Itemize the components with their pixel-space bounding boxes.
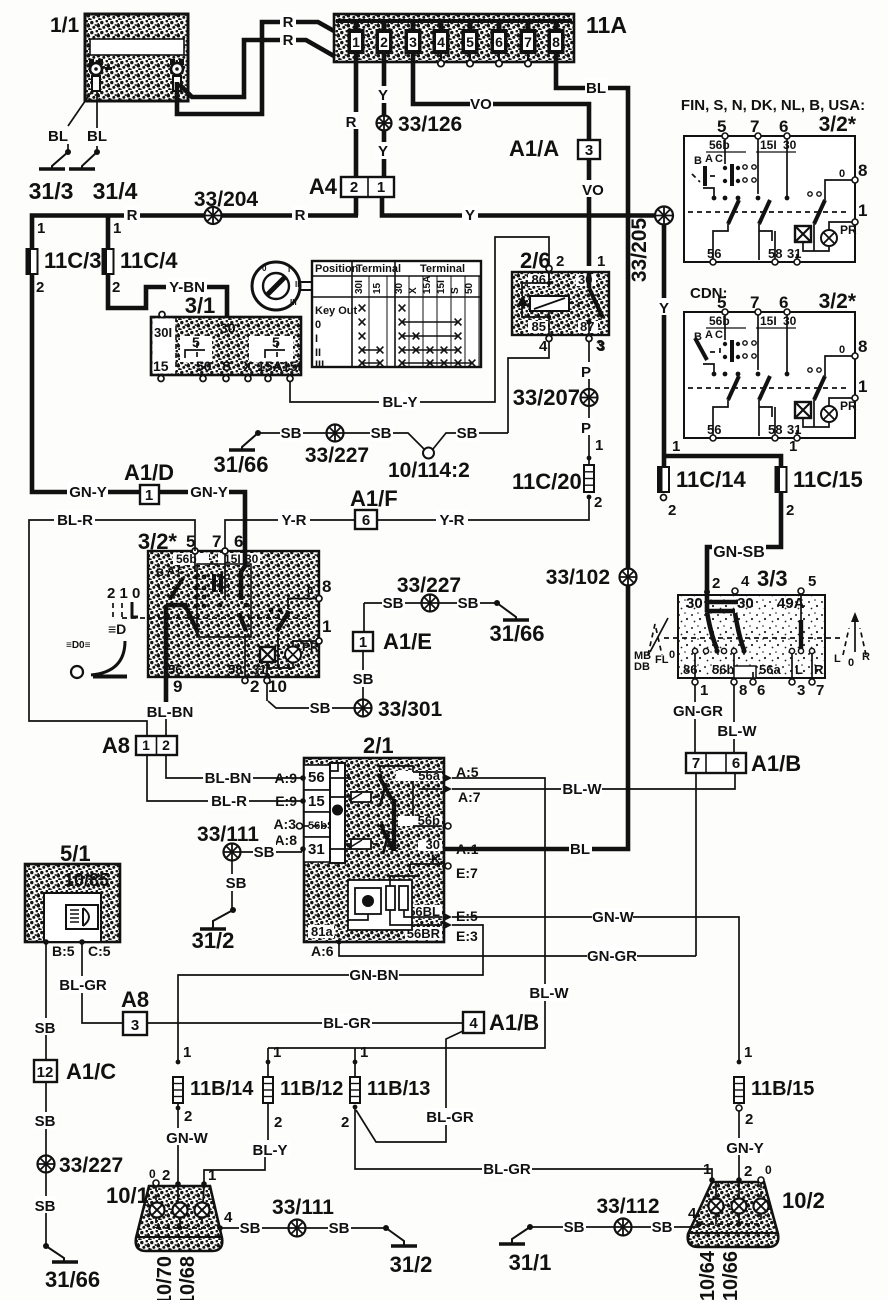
svg-text:FL: FL <box>655 654 669 666</box>
svg-text:15I: 15I <box>436 280 447 294</box>
svg-text:12: 12 <box>37 1064 54 1081</box>
svg-text:A:7: A:7 <box>458 789 481 805</box>
svg-text:BL: BL <box>87 128 107 145</box>
svg-text:11B/13: 11B/13 <box>367 1078 430 1100</box>
svg-text:A1/B: A1/B <box>751 751 801 776</box>
svg-text:1: 1 <box>322 617 331 636</box>
svg-text:2: 2 <box>341 1114 349 1131</box>
svg-text:SB: SB <box>281 425 302 442</box>
wire BL-GR A1/B pin4 to fuse 11B/13 pin2 <box>356 1031 463 1142</box>
svg-text:30I: 30I <box>154 325 172 340</box>
svg-text:GN-SB: GN-SB <box>713 544 765 561</box>
svg-text:BL-W: BL-W <box>529 985 569 1002</box>
connector A1/C <box>34 1059 116 1084</box>
svg-text:56: 56 <box>168 662 182 677</box>
svg-text:2: 2 <box>350 179 358 196</box>
svg-text:1: 1 <box>37 220 45 237</box>
wire BL fuse8 down right side to relay 2/1 pin A:1 <box>444 54 628 849</box>
svg-text:33/112: 33/112 <box>596 1195 659 1218</box>
wire GN-Y fuse 11B/15 to lamp 10/2 pin2 <box>738 1111 740 1181</box>
svg-text:A: A <box>705 329 713 341</box>
svg-text:15I: 15I <box>760 138 777 152</box>
svg-text:33/102: 33/102 <box>546 566 610 589</box>
svg-text:A1/F: A1/F <box>350 486 398 511</box>
svg-text:L: L <box>795 662 803 677</box>
fuse 11B/14 <box>173 1077 183 1103</box>
wire GN-GR A:6 to A1/B pin7 <box>339 942 696 956</box>
svg-text:B:5: B:5 <box>52 943 75 959</box>
svg-text:10/85: 10/85 <box>64 870 109 890</box>
wire BL-Y ignition 15I to relay 2/6 coil <box>290 237 549 402</box>
svg-text:A8: A8 <box>102 733 130 758</box>
ground 31/1 <box>499 1224 533 1244</box>
fuse 11C/4 <box>106 249 111 274</box>
svg-text:33/205: 33/205 <box>628 218 651 283</box>
svg-text:3/1: 3/1 <box>185 293 216 318</box>
svg-text:L: L <box>834 653 841 665</box>
svg-text:SB: SB <box>226 875 247 892</box>
svg-text:B: B <box>694 155 702 167</box>
fuse 11B/15 <box>734 1077 744 1103</box>
ground 31/3 <box>39 149 71 169</box>
svg-text:6: 6 <box>779 293 788 312</box>
svg-text:10/2: 10/2 <box>782 1188 825 1213</box>
svg-text:PR: PR <box>840 223 857 237</box>
svg-text:11C/4: 11C/4 <box>120 248 178 273</box>
svg-text:6: 6 <box>732 755 740 772</box>
ground 31/2 <box>200 907 236 929</box>
svg-text:15A: 15A <box>422 276 433 294</box>
svg-text:PR: PR <box>302 640 319 654</box>
svg-text:1/1: 1/1 <box>50 14 80 37</box>
svg-text:1: 1 <box>273 1044 281 1061</box>
svg-text:1: 1 <box>672 438 680 455</box>
wire BL-GR 5/1 C:5 to connector A8 pin3 <box>82 942 123 1023</box>
svg-text:2: 2 <box>556 253 564 270</box>
svg-text:III: III <box>315 359 324 371</box>
svg-text:Terminal: Terminal <box>420 263 465 275</box>
svg-text:15I: 15I <box>282 358 301 374</box>
svg-text:33/227: 33/227 <box>305 444 369 467</box>
svg-text:33/227: 33/227 <box>59 1154 123 1177</box>
wire GN-W E:5 to fuse 11B/15 <box>452 917 739 1062</box>
svg-text:10/114:2: 10/114:2 <box>388 459 470 482</box>
svg-text:BL-W: BL-W <box>562 781 602 798</box>
svg-text:31/66: 31/66 <box>45 1267 100 1292</box>
svg-text:BL-BN: BL-BN <box>147 704 194 721</box>
svg-text:Y-R: Y-R <box>281 512 306 529</box>
svg-text:56b: 56b <box>712 662 734 677</box>
svg-text:8: 8 <box>322 577 331 596</box>
svg-text:II: II <box>315 347 321 359</box>
svg-text:0: 0 <box>839 344 845 356</box>
svg-text:4: 4 <box>688 1205 697 1222</box>
svg-text:B: B <box>156 567 164 579</box>
svg-text:15I: 15I <box>760 314 777 328</box>
svg-text:3: 3 <box>409 34 417 50</box>
svg-text:GN-GR: GN-GR <box>673 703 723 720</box>
svg-text:11B/12: 11B/12 <box>280 1078 343 1100</box>
svg-text:7: 7 <box>692 755 700 772</box>
svg-text:11B/15: 11B/15 <box>751 1078 814 1100</box>
svg-text:BL-GR: BL-GR <box>483 1161 531 1178</box>
svg-text:56b: 56b <box>709 138 730 152</box>
fuse box 11A <box>334 12 627 67</box>
svg-text:A:8: A:8 <box>274 832 297 848</box>
svg-text:11A: 11A <box>586 12 627 38</box>
svg-text:2: 2 <box>162 737 170 753</box>
fuse 11B/13 <box>350 1077 360 1103</box>
ground 31/2 bottom <box>383 1225 417 1246</box>
wire battery positive inner R to fuse box <box>179 40 334 97</box>
rotary position indicator 2 1 0 <box>66 585 140 678</box>
wire GN-Y 11C/3 down to A1/D <box>32 274 245 551</box>
svg-text:PR: PR <box>840 399 857 413</box>
svg-text:GN-Y: GN-Y <box>69 484 107 501</box>
svg-text:5: 5 <box>717 293 726 312</box>
svg-text:X: X <box>243 358 253 374</box>
svg-text:31/4: 31/4 <box>93 178 138 204</box>
svg-text:11B/14: 11B/14 <box>190 1078 254 1100</box>
wire battery positive outer R to fuse box <box>177 22 334 114</box>
svg-text:8: 8 <box>552 34 560 50</box>
svg-text:A1/E: A1/E <box>383 629 432 654</box>
svg-text:15: 15 <box>308 793 325 810</box>
svg-text:33/204: 33/204 <box>194 188 259 211</box>
svg-text:BL-Y: BL-Y <box>253 1142 288 1159</box>
svg-text:2: 2 <box>380 34 388 50</box>
connector 33/301 <box>355 700 372 717</box>
svg-text:86: 86 <box>532 272 546 287</box>
svg-text:1: 1 <box>142 737 150 753</box>
svg-text:BL: BL <box>48 128 68 145</box>
wire Y-BN 11C/4 to ignition switch 3/1 <box>108 274 227 317</box>
relay 2/1 left pins A:9 E:9 A:3 A:8 <box>300 775 306 781</box>
svg-text:1: 1 <box>858 377 867 396</box>
wire SB A1/C to ground 31/66 bottom left <box>45 1082 47 1246</box>
connector 33/204 <box>205 207 222 224</box>
svg-text:A1/D: A1/D <box>124 460 174 485</box>
svg-text:1: 1 <box>145 487 153 504</box>
svg-text:1: 1 <box>744 1044 752 1061</box>
svg-text:11C/15: 11C/15 <box>793 467 863 492</box>
svg-text:A: A <box>705 153 713 165</box>
wire R main horizontal to 11C/3 11C/4 <box>32 197 358 249</box>
svg-text:X: X <box>408 287 419 294</box>
wire SB A1/E to connector 33/301 and switch 3/2 pin10 <box>267 651 363 708</box>
headlamp assembly 10/2 <box>688 1161 825 1247</box>
svg-text:GN-BN: GN-BN <box>349 967 398 984</box>
svg-text:II: II <box>295 280 299 289</box>
svg-text:4: 4 <box>539 338 548 355</box>
svg-text:Y: Y <box>659 300 669 317</box>
svg-text:3/2*: 3/2* <box>819 113 857 136</box>
wire Y A4 to connector 33/205 <box>382 197 664 216</box>
svg-text:1: 1 <box>700 682 708 699</box>
svg-text:50: 50 <box>464 282 475 294</box>
svg-text:31: 31 <box>252 662 266 677</box>
svg-text:BL-R: BL-R <box>211 793 247 810</box>
turn signal lever arrows right L 0 R <box>834 612 870 669</box>
svg-text:2: 2 <box>744 1163 752 1180</box>
svg-text:7: 7 <box>816 682 824 699</box>
svg-text:58: 58 <box>228 662 242 677</box>
connector 33/227 mid <box>422 595 439 612</box>
wire Y 33/205 down to fuses 11C/14 11C/15 <box>664 224 781 467</box>
svg-text:SB: SB <box>564 1219 585 1236</box>
connector A8 (1 2) <box>102 733 177 758</box>
svg-text:5: 5 <box>272 334 280 350</box>
ignition key symbol <box>252 262 312 310</box>
svg-text:3/2*: 3/2* <box>819 290 857 313</box>
wire BL-W 3/3 pin8 to A1/B pin6 <box>733 685 735 753</box>
ignition switch 3/1 <box>151 293 301 375</box>
svg-text:31: 31 <box>787 246 801 261</box>
svg-text:1: 1 <box>595 437 603 454</box>
svg-text:31/66: 31/66 <box>489 621 544 646</box>
connector A1/A <box>509 136 600 161</box>
svg-text:SB: SB <box>353 671 374 688</box>
svg-text:GN-GR: GN-GR <box>587 948 637 965</box>
svg-text:P: P <box>581 364 591 381</box>
wire BL-BN A8 pin2 to relay 2/1 A:9 <box>166 755 302 778</box>
ground 31/66 mid <box>494 600 529 620</box>
svg-text:15: 15 <box>153 358 169 374</box>
relay 2/6 <box>512 248 609 355</box>
wire BL-GR A8 pin3 to connector A1/B pin4 <box>147 1022 463 1024</box>
svg-text:30: 30 <box>737 595 754 612</box>
svg-text:BL-W: BL-W <box>717 723 757 740</box>
wire SB 33/227 mid to A1/E and ground 31/66 <box>364 603 497 650</box>
svg-text:56: 56 <box>308 769 325 786</box>
fuse 11C/15 <box>776 467 787 492</box>
svg-text:7: 7 <box>750 293 759 312</box>
svg-text:5: 5 <box>808 573 816 590</box>
svg-text:33/301: 33/301 <box>378 698 443 721</box>
svg-text:2: 2 <box>712 575 720 592</box>
relay 2/1 right pins A:5 A:7 56b A:1 K E:7 E:5 E:3 <box>444 774 452 782</box>
svg-text:2: 2 <box>786 502 794 519</box>
svg-text:A:6: A:6 <box>311 943 334 959</box>
svg-text:33/207: 33/207 <box>513 385 580 410</box>
svg-text:BL-R: BL-R <box>57 512 93 529</box>
svg-text:5/1: 5/1 <box>60 841 91 866</box>
svg-text:SB: SB <box>457 425 478 442</box>
svg-text:15A: 15A <box>257 358 283 374</box>
svg-text:11C/20: 11C/20 <box>512 469 582 494</box>
switch 3/3 turn signal <box>664 566 843 681</box>
svg-text:A1/A: A1/A <box>509 136 559 161</box>
svg-text:BL-GR: BL-GR <box>323 1015 371 1032</box>
svg-text:A: A <box>167 565 175 577</box>
svg-text:Y-R: Y-R <box>439 512 464 529</box>
svg-text:VO: VO <box>582 182 604 199</box>
svg-text:9: 9 <box>173 677 182 696</box>
instrument panel 5/1 with indicator 10/85 <box>25 841 120 959</box>
svg-text:A:9: A:9 <box>274 770 297 786</box>
svg-text:SB: SB <box>458 595 479 612</box>
switch 3/3 bottom pins 1 8 6 3 7 <box>692 679 698 685</box>
svg-text:6: 6 <box>234 532 243 551</box>
relay 2/6 switch blade 30-87 <box>586 272 603 335</box>
svg-text:56a: 56a <box>759 662 781 677</box>
svg-text:III: III <box>290 298 297 307</box>
svg-text:I: I <box>315 333 318 345</box>
svg-text:7: 7 <box>212 532 221 551</box>
svg-text:I: I <box>288 265 290 274</box>
svg-text:Y: Y <box>378 143 388 160</box>
svg-text:A4: A4 <box>309 174 338 199</box>
turn signal lever arrows left MB DB FL 0 <box>634 618 675 673</box>
svg-text:30: 30 <box>426 837 440 852</box>
svg-text:10/68: 10/68 <box>177 1256 199 1300</box>
wire R fuse1 to connector A4 <box>354 54 359 177</box>
svg-text:BL-BN: BL-BN <box>205 770 252 787</box>
connector A1/F <box>350 486 398 529</box>
ground 31/4 <box>69 149 100 169</box>
svg-text:SB: SB <box>35 1113 56 1130</box>
connector 33/227 <box>327 425 344 442</box>
svg-text:4: 4 <box>469 1015 478 1032</box>
svg-text:2: 2 <box>184 1108 192 1125</box>
headlamp assembly 10/1 <box>106 1167 233 1251</box>
svg-text:A1/C: A1/C <box>66 1059 116 1084</box>
svg-text:5: 5 <box>717 117 726 136</box>
wire BL-GR fuse 11B/13 to lamp 10/2 pin1 <box>355 1107 712 1182</box>
svg-text:0: 0 <box>765 1163 772 1177</box>
fuse 11C/20 <box>584 465 594 492</box>
svg-text:GN-Y: GN-Y <box>726 1140 764 1157</box>
svg-text:8: 8 <box>739 682 747 699</box>
svg-text:11C/14: 11C/14 <box>676 467 746 492</box>
headlamp switch 3/2* FIN,S,N,DK,NL,B,USA variant <box>681 97 868 265</box>
svg-text:15: 15 <box>372 282 383 294</box>
svg-text:3/3: 3/3 <box>757 566 788 591</box>
svg-text:C:5: C:5 <box>88 943 111 959</box>
svg-text:6: 6 <box>757 682 765 699</box>
wire P relay 2/6 pin3 to fuse 11C/20 <box>588 342 590 465</box>
svg-text:5: 5 <box>466 34 474 50</box>
svg-text:R: R <box>346 114 357 131</box>
connector A8 (3) <box>121 987 149 1035</box>
svg-text:1: 1 <box>377 179 385 196</box>
fuse 11C/14 <box>658 467 669 492</box>
wire VO fuse3 to relay 2/6 pin1 <box>413 54 589 266</box>
wire GN-GR 3/3 pin1 to A1/B pin7 and relay 2/1 A:6 <box>695 685 696 956</box>
switch 3/2* bottom pins 9 2 10 <box>242 678 248 684</box>
wire GN-W fuse 11B/14 to lamp 10/1 pin2 <box>177 1103 179 1186</box>
connector A4 <box>309 174 394 199</box>
svg-text:56b: 56b <box>709 314 730 328</box>
headlamp switch 3/2* CDN variant <box>684 285 867 441</box>
svg-text:1: 1 <box>113 220 121 237</box>
svg-text:31/66: 31/66 <box>213 452 268 477</box>
svg-text:5: 5 <box>192 334 200 350</box>
svg-text:33/111: 33/111 <box>197 823 259 846</box>
svg-text:A8: A8 <box>121 987 149 1012</box>
connector 33/126 <box>377 116 392 131</box>
relay 2/1 <box>304 733 444 942</box>
svg-text:1: 1 <box>703 1161 711 1178</box>
svg-text:E:9: E:9 <box>275 793 297 809</box>
svg-text:10/70: 10/70 <box>154 1256 176 1300</box>
svg-text:E:7: E:7 <box>456 865 478 881</box>
svg-text:30I: 30I <box>354 280 365 294</box>
svg-text:50: 50 <box>196 358 212 374</box>
svg-text:2 1 0: 2 1 0 <box>107 585 140 602</box>
wire SB 33/111 to ground 31/2 <box>231 860 233 910</box>
svg-text:31: 31 <box>787 422 801 437</box>
svg-text:≡D0≡: ≡D0≡ <box>66 640 91 651</box>
wire BL-R A8 pin1 to relay 2/1 E:9 <box>147 755 302 801</box>
wire BL-BN switch 3/2 pin9 to connector A8 pin2 <box>164 680 169 707</box>
svg-text:SB: SB <box>383 595 404 612</box>
svg-text:7: 7 <box>750 117 759 136</box>
wire BL-Y fuse 11B/12 to lamp 10/1 pin1 <box>204 1103 268 1186</box>
svg-text:E:3: E:3 <box>456 928 478 944</box>
svg-text:33/111: 33/111 <box>272 1196 334 1219</box>
svg-text:6: 6 <box>495 34 503 50</box>
svg-text:0: 0 <box>262 264 267 273</box>
svg-text:30: 30 <box>686 595 703 612</box>
connector A1/B (7 6) <box>686 751 801 776</box>
svg-text:30: 30 <box>783 314 797 328</box>
connector A1/D <box>124 460 174 504</box>
connector 33/227 left column <box>38 1156 55 1173</box>
svg-text:0: 0 <box>669 649 675 661</box>
wire Y fuse2 to connector A4 <box>382 54 387 177</box>
svg-text:11C/3: 11C/3 <box>44 248 102 273</box>
wire SB lamp 10/2 pin4 to ground 31/1 via 33/112 <box>530 1225 699 1227</box>
svg-text:R: R <box>283 14 294 31</box>
svg-text:10/64: 10/64 <box>697 1250 719 1300</box>
fuse 11C/3 <box>30 249 35 274</box>
svg-text:R: R <box>814 662 824 677</box>
svg-text:0: 0 <box>848 657 854 669</box>
svg-text:SB: SB <box>329 1220 350 1237</box>
wire battery negative to ground 31/4 <box>96 91 98 152</box>
connector 33/111 bottom <box>289 1220 306 1237</box>
svg-text:BL-GR: BL-GR <box>59 977 107 994</box>
svg-text:4: 4 <box>437 34 445 50</box>
svg-text:3: 3 <box>585 142 593 159</box>
svg-text:Position: Position <box>315 263 359 275</box>
svg-text:85: 85 <box>532 319 546 334</box>
svg-text:GN-W: GN-W <box>166 1130 208 1147</box>
svg-text:6: 6 <box>779 117 788 136</box>
svg-text:3: 3 <box>797 682 805 699</box>
svg-text:2: 2 <box>594 494 602 511</box>
svg-text:R: R <box>295 207 306 224</box>
svg-text:2: 2 <box>668 502 676 519</box>
svg-text:0: 0 <box>315 319 321 331</box>
svg-text:3: 3 <box>596 337 604 354</box>
ignition position table <box>312 261 481 371</box>
svg-text:8: 8 <box>858 161 867 180</box>
connector 33/112 <box>615 1219 632 1236</box>
svg-text:SB: SB <box>371 425 392 442</box>
svg-text:6: 6 <box>362 512 370 529</box>
svg-text:SB: SB <box>652 1219 673 1236</box>
svg-text:1: 1 <box>183 1044 191 1061</box>
svg-text:2: 2 <box>112 279 120 296</box>
connector 33/102 <box>620 569 637 586</box>
svg-text:2: 2 <box>274 1114 282 1131</box>
svg-text:R: R <box>862 651 870 663</box>
svg-text:GN-W: GN-W <box>592 909 634 926</box>
svg-text:DB: DB <box>634 661 650 673</box>
svg-text:1: 1 <box>352 34 360 50</box>
